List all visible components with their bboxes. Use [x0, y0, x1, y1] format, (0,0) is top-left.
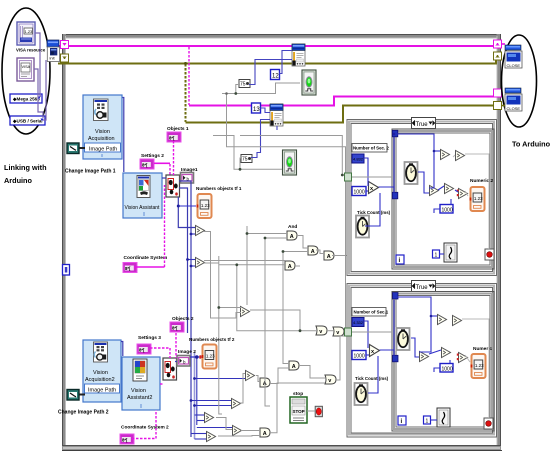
- svg-text:Vision Assistant: Vision Assistant: [125, 205, 161, 211]
- svg-text:◆USB / Serial: ◆USB / Serial: [12, 119, 43, 124]
- svg-text:4.832: 4.832: [353, 157, 364, 162]
- svg-text:And: And: [288, 224, 297, 230]
- svg-text:Settings 3: Settings 3: [138, 335, 161, 341]
- svg-text:True: True: [416, 285, 429, 291]
- svg-text:Image Path: Image Path: [89, 147, 117, 153]
- svg-text:Vision: Vision: [131, 388, 146, 394]
- svg-text:VISA resource: VISA resource: [16, 48, 46, 53]
- svg-text:Linking with: Linking with: [4, 163, 47, 172]
- svg-text:True: True: [416, 122, 429, 128]
- svg-text:Image 2: Image 2: [178, 349, 196, 355]
- svg-text:Number of Sec. 2: Number of Sec. 2: [353, 146, 389, 151]
- svg-text:12: 12: [272, 74, 279, 80]
- svg-text:Objects 1: Objects 1: [167, 126, 189, 132]
- svg-text:4.332: 4.332: [353, 320, 364, 325]
- svg-text:Coordinate System: Coordinate System: [124, 255, 168, 261]
- svg-text:Objects 2: Objects 2: [172, 316, 194, 322]
- svg-text:VISA: VISA: [22, 65, 31, 69]
- svg-text:Numbers objects tf 1: Numbers objects tf 1: [196, 186, 242, 191]
- svg-text:1: 1: [435, 253, 438, 259]
- svg-text:Numeric: Numeric: [473, 346, 493, 352]
- svg-text:STOP: STOP: [293, 409, 305, 414]
- svg-text:Numbers objects tf 2: Numbers objects tf 2: [189, 337, 235, 342]
- svg-text:1000: 1000: [442, 208, 453, 214]
- svg-text:1000: 1000: [354, 354, 365, 360]
- svg-text:Tick Count (ms): Tick Count (ms): [357, 210, 391, 215]
- svg-text:init: init: [50, 56, 56, 61]
- svg-text:Assistant2: Assistant2: [127, 395, 152, 401]
- svg-text:1000: 1000: [442, 367, 453, 373]
- svg-text:Vision: Vision: [93, 370, 108, 376]
- svg-text:To Arduino: To Arduino: [512, 140, 550, 149]
- svg-text:Image Path: Image Path: [88, 388, 116, 394]
- svg-text:13: 13: [253, 107, 260, 113]
- svg-text:1.23: 1.23: [25, 29, 34, 34]
- svg-text:Acquisition2: Acquisition2: [85, 377, 115, 383]
- svg-text:Settings 2: Settings 2: [141, 153, 164, 159]
- svg-text:Vision: Vision: [95, 129, 110, 135]
- svg-text:Coordinate System 2: Coordinate System 2: [121, 425, 169, 431]
- svg-text:Change Image Path 2: Change Image Path 2: [58, 410, 109, 416]
- svg-text:Acquisition: Acquisition: [88, 136, 115, 142]
- svg-text:Tick Count (ms): Tick Count (ms): [355, 376, 389, 381]
- svg-text:◆Mega 2560: ◆Mega 2560: [12, 97, 40, 102]
- svg-text:stop: stop: [293, 391, 303, 397]
- svg-text:1: 1: [426, 419, 429, 425]
- svg-text:Change Image Path 1: Change Image Path 1: [65, 169, 116, 175]
- svg-text:1000: 1000: [354, 190, 365, 196]
- svg-text:Arduino: Arduino: [4, 176, 33, 185]
- svg-text:Number of Sec.1: Number of Sec.1: [354, 310, 389, 315]
- svg-text:Numeric 2: Numeric 2: [470, 178, 494, 184]
